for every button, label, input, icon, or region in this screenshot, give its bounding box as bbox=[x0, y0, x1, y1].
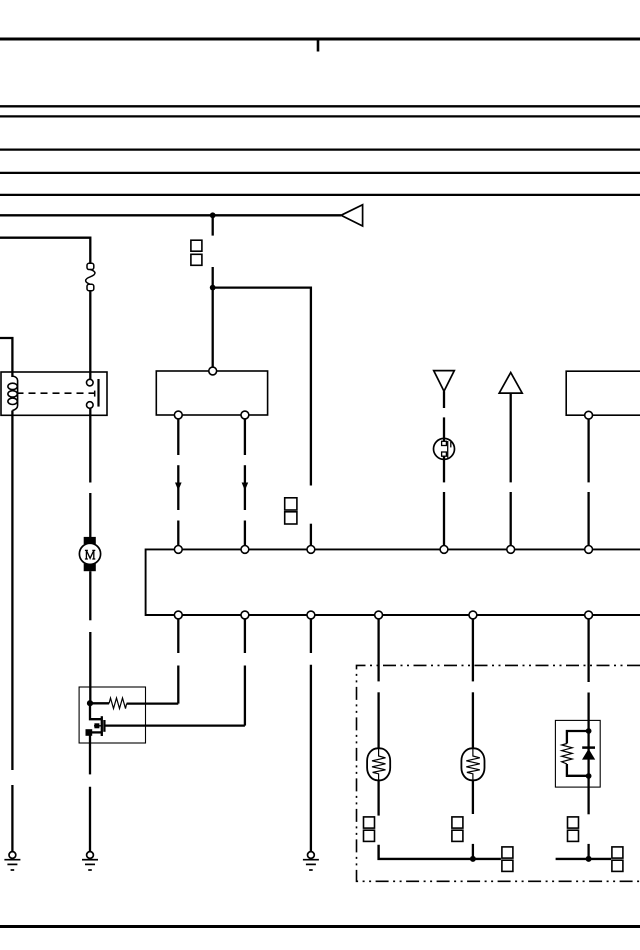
lamp assembly dash-dot boundary bbox=[357, 665, 640, 881]
node junction bbox=[210, 285, 216, 291]
wire bbox=[310, 524, 312, 546]
bulb L1 bbox=[367, 748, 390, 780]
relay coil bbox=[8, 376, 18, 411]
node junction bbox=[586, 856, 592, 862]
wire feed to breaker bbox=[0, 238, 90, 264]
diode D1 bbox=[582, 748, 595, 760]
connector C204 bbox=[568, 817, 579, 842]
wire bbox=[89, 493, 91, 537]
bus terminals top bbox=[174, 546, 592, 554]
wire hot feed bbox=[0, 214, 341, 216]
wire bbox=[510, 492, 512, 546]
wire drop to bulb 1 bbox=[377, 619, 379, 749]
relay link tick bbox=[94, 391, 96, 397]
node junction bbox=[586, 773, 592, 779]
wire bbox=[443, 492, 445, 546]
transistor Q1 bbox=[86, 703, 245, 736]
wire dashed drop 2 bbox=[244, 419, 246, 546]
wire motor to module bbox=[89, 571, 91, 620]
node junction bbox=[586, 728, 592, 734]
wire drop to ground bbox=[310, 619, 312, 852]
wire bbox=[212, 267, 214, 371]
node tick on top rule bbox=[317, 40, 320, 52]
right unit box bbox=[566, 371, 640, 415]
wire to common bbox=[379, 845, 501, 859]
wire relay to motor bbox=[89, 415, 91, 482]
connector C205 bbox=[612, 847, 623, 872]
wire bbox=[89, 632, 91, 703]
relay contact terminal upper bbox=[87, 379, 94, 386]
bus rule 5 bbox=[0, 194, 640, 196]
relay K1 box bbox=[1, 372, 107, 415]
resistor R1 bbox=[90, 698, 178, 709]
wire breaker to relay bbox=[89, 291, 91, 372]
bus rule 3 bbox=[0, 148, 640, 150]
wire bbox=[89, 787, 91, 852]
node junction bbox=[210, 212, 216, 218]
triangle connector down bbox=[434, 371, 455, 392]
ground G1 bbox=[4, 852, 20, 870]
bus rule 2 bbox=[0, 115, 640, 117]
inline connector circle bbox=[434, 438, 455, 459]
bus terminals bottom bbox=[174, 611, 592, 619]
connector C203 bbox=[452, 817, 463, 842]
wire drop to module drain bbox=[244, 619, 246, 726]
wire bbox=[472, 844, 474, 859]
wire bbox=[472, 780, 474, 814]
pin terminal top bbox=[209, 367, 217, 375]
wire relay pin stubs bbox=[89, 372, 91, 379]
ground G2 bbox=[82, 852, 98, 870]
wire drop to module resistor bbox=[177, 619, 179, 704]
motor M1 bbox=[79, 537, 100, 571]
ground G3 bbox=[303, 852, 319, 870]
resistor R2 bbox=[562, 731, 589, 776]
arrow direction 1 bbox=[175, 483, 182, 491]
diode unit box bbox=[555, 720, 600, 787]
connector C102 bbox=[285, 498, 297, 524]
wire bbox=[587, 492, 589, 546]
node junction bbox=[470, 856, 476, 862]
control module box bbox=[79, 687, 145, 743]
wire bbox=[443, 391, 445, 408]
relay contact terminal lower bbox=[87, 402, 94, 409]
bus rule 1 bbox=[0, 105, 640, 107]
arrow direction 2 bbox=[242, 483, 249, 491]
wire bbox=[11, 785, 13, 852]
wire bbox=[212, 215, 214, 235]
circuit breaker bbox=[86, 263, 95, 290]
node junction bbox=[87, 700, 93, 706]
connector C101 bbox=[191, 240, 202, 265]
connector C202 bbox=[502, 847, 513, 872]
pin terminal bottom 1 bbox=[174, 411, 182, 419]
top border rule bbox=[0, 38, 640, 41]
wire drop to bulb 2 bbox=[472, 619, 474, 749]
wire to stub common bbox=[587, 844, 589, 859]
bottom border rule bbox=[0, 925, 640, 928]
wire through diode unit bbox=[587, 720, 589, 787]
bulb L2 bbox=[461, 748, 484, 780]
triangle connector up bbox=[499, 373, 522, 394]
wire drop to diode unit bbox=[587, 619, 589, 721]
pin terminal bottom 2 bbox=[241, 411, 249, 419]
wire bbox=[377, 780, 379, 815]
wire module to ground bbox=[89, 733, 91, 775]
arrow connector A bbox=[341, 205, 363, 226]
wire branch bbox=[213, 288, 311, 486]
connector C201 bbox=[364, 817, 375, 842]
bus rule 4 bbox=[0, 172, 640, 174]
junction bus block bbox=[146, 549, 640, 615]
wire bbox=[587, 419, 589, 482]
pin terminal bbox=[585, 411, 593, 419]
wire dashed drop 1 bbox=[177, 419, 179, 546]
wire bbox=[510, 393, 512, 482]
wire bbox=[443, 459, 445, 482]
wire common stub bbox=[556, 858, 611, 860]
relay contact bar bbox=[97, 379, 99, 407]
switch unit box bbox=[156, 371, 267, 415]
wire bbox=[443, 417, 445, 438]
wire bbox=[587, 787, 589, 814]
wire coil feed bbox=[0, 338, 12, 377]
relay actuation dashed link bbox=[17, 392, 95, 394]
wire coil to ground run bbox=[11, 411, 13, 771]
